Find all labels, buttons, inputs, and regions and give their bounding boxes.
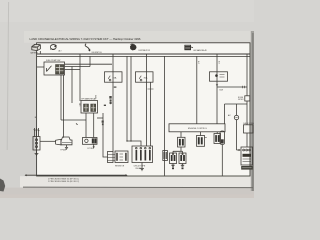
ignition key icon (85, 44, 102, 54)
stub tick (97, 117, 103, 119)
ground under pump (65, 145, 68, 150)
wire x150 (150, 82, 152, 146)
relay pins left (84, 104, 89, 112)
svg-text:EFI MAIN RELAY: EFI MAIN RELAY (194, 49, 208, 52)
wire to resistor (224, 104, 226, 124)
wire x63 to pump (63, 75, 65, 138)
wire x103 (103, 113, 108, 157)
wire x86 (85, 113, 87, 138)
bottom-left dark blob (0, 179, 5, 192)
connector C (214, 134, 221, 144)
wire x247 into check box (246, 104, 248, 125)
wire x164 long (164, 56, 166, 175)
svg-text:ALT: ALT (59, 49, 62, 52)
svg-text:FILTER: FILTER (238, 99, 244, 101)
wire x197 (196, 56, 198, 123)
wire mid stub (71, 66, 73, 69)
connector ticks on y87 (243, 86, 245, 88)
main relay box top right (210, 72, 228, 81)
wire jog node (89, 56, 91, 66)
wire y120 (61, 119, 86, 121)
relay pins right (91, 104, 96, 112)
wire x72 (71, 67, 73, 103)
svg-text:15A: 15A (113, 77, 117, 80)
paper strip below frame (20, 176, 252, 187)
wire to pump (40, 140, 56, 142)
svg-text:30A: 30A (144, 77, 148, 80)
alternator icon (50, 45, 61, 53)
svg-text:IGN SWITCH: IGN SWITCH (92, 52, 103, 54)
net label AM2 vertical (109, 87, 116, 105)
connector D (170, 153, 177, 164)
wire down arrow (93, 144, 95, 148)
fuel pump relay box (44, 62, 65, 75)
right page edge shadow (251, 31, 254, 191)
noise filter label (238, 97, 244, 101)
left crease (7, 2, 8, 150)
engine control unit bar (169, 124, 225, 132)
wire to AC amp (236, 104, 238, 115)
noise filter (245, 96, 250, 101)
fuse AM1 box (136, 72, 154, 82)
svg-text:F.P RES: F.P RES (88, 148, 95, 150)
wire x61 (60, 75, 62, 120)
wire y87 branch (217, 86, 247, 88)
relay box icon (184, 45, 207, 52)
inline connector on long wire (163, 151, 168, 161)
svg-text:ENGINE CONTROL: ENGINE CONTROL (188, 128, 208, 130)
AC amplifier circle (234, 115, 238, 119)
circuit opening relay (132, 146, 153, 163)
wire under resistor (221, 145, 223, 176)
wire to left frame (37, 66, 44, 68)
wire x127 (126, 56, 128, 141)
ECU pin stem B (200, 132, 202, 136)
wire x217 (216, 54, 218, 124)
battery connector (33, 137, 40, 151)
fuse AM1 symbol (140, 76, 142, 81)
svg-text:LAND CRUISER ELECTRICAL WIRING: LAND CRUISER ELECTRICAL WIRING 7-3 EFI S… (30, 37, 141, 41)
wire right upper (65, 63, 113, 65)
resistor block (113, 151, 128, 163)
ground under E (181, 164, 184, 170)
wire filter drop (246, 87, 248, 104)
svg-text:2 PRECEDING PAGE 30 (EFI NO.2: 2 PRECEDING PAGE 30 (EFI NO.2) (48, 180, 79, 183)
wire x247 lower (246, 133, 248, 147)
engine icon (130, 44, 151, 52)
wire right lower (65, 69, 81, 71)
wire y104 branch (225, 103, 248, 105)
stems to D and E (173, 147, 183, 153)
wire code label vertical (102, 105, 106, 126)
fuel pump (56, 137, 72, 145)
svg-text:B-W: B-W (220, 89, 224, 91)
EFI main relay box (81, 101, 98, 114)
scan background (0, 0, 254, 198)
battery feed arrows (34, 128, 40, 137)
tick mark (76, 124, 78, 125)
ECU pin stem C (216, 132, 218, 134)
fuse AM2 box (105, 72, 123, 82)
diagnosis label strip (241, 166, 253, 170)
ground under relay (140, 163, 144, 171)
svg-text:NOISE: NOISE (238, 97, 243, 99)
connector A (178, 137, 186, 147)
check connector box (244, 125, 254, 133)
ground under D (171, 164, 174, 170)
wire right mid (65, 66, 91, 68)
bus wire lower (37, 55, 250, 57)
resistor R1 vertical rounded (220, 131, 225, 145)
left connector C1 (108, 152, 114, 163)
diode mark (216, 84, 218, 86)
bottom scan band (0, 188, 254, 198)
paper inside frame (37, 43, 251, 176)
diagnosis connector block (241, 147, 253, 165)
fuse AM2 symbol (109, 76, 111, 81)
bus wire upper (37, 53, 250, 55)
wire x94 (93, 113, 95, 138)
junction dots (126, 140, 127, 141)
wire x113 (112, 54, 114, 152)
fuse2 pin marks (148, 88, 154, 90)
relay connector grid (56, 65, 64, 75)
wire x80 (79, 54, 81, 101)
wire under AC amp (236, 120, 238, 150)
relay switch contact (47, 66, 52, 72)
wire arrow into block (237, 149, 241, 151)
battery pin tick (39, 51, 41, 54)
preceding page arrow wire (25, 174, 128, 176)
battery icon (31, 44, 41, 54)
wire x247 (246, 54, 248, 87)
ground under battery connector (35, 150, 39, 156)
wire x146 (146, 54, 148, 146)
svg-text:DISTRIBUTOR: DISTRIBUTOR (139, 50, 151, 52)
long fold line under page (23, 186, 253, 189)
ECU pin stem A (180, 132, 182, 138)
connector E (179, 153, 186, 164)
fuel pump resistor (83, 138, 98, 145)
wire elbow y141 (127, 141, 141, 146)
connector B (197, 136, 207, 147)
svg-text:RESISTOR: RESISTOR (115, 165, 125, 167)
wire x131 (130, 56, 132, 141)
paper strip above frame (24, 31, 251, 43)
